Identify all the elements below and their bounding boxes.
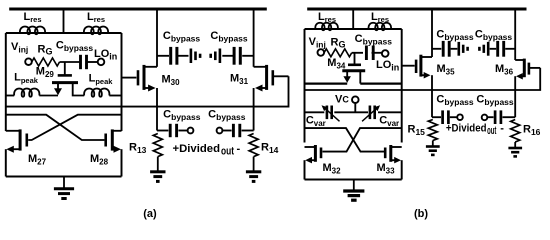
resistor R14: [249, 134, 258, 157]
label R14: [261, 142, 279, 156]
label Cvar right: [379, 115, 399, 129]
label M31: [230, 73, 249, 87]
wire ground rail (b): [305, 179, 402, 181]
label Lpeak left: [14, 72, 39, 85]
svg-text:R16: R16: [523, 124, 541, 138]
wire OUT+ to M36 gate loop: [305, 68, 541, 90]
label M34: [327, 57, 346, 71]
capacitor Cbypass out left (a): [170, 124, 176, 137]
wire rail to M31 drain node: [253, 9, 255, 67]
terminal Vinj (a): [25, 58, 32, 65]
wire M27 source to ground rail: [5, 149, 7, 176]
terminal Divided- (b): [482, 115, 488, 121]
wire M32 source to ground rail: [304, 160, 306, 179]
label LOin (b): [376, 59, 399, 73]
wire M36 gate loop: [529, 67, 540, 69]
inductor Lpeak right: [84, 88, 109, 96]
ground R13: [150, 157, 165, 182]
wire OUT+ to M31 gate loop: [6, 76, 289, 106]
ground sideways left (b): [459, 42, 468, 56]
svg-text:+Divided: +Divided: [173, 143, 221, 155]
label M29: [36, 66, 55, 80]
transistor M27 channel bar: [19, 129, 22, 150]
capacitor Cbypass M30 drain: [171, 47, 177, 65]
svg-text:R14: R14: [261, 142, 279, 156]
resistor R16: [511, 120, 520, 143]
transistor M27 source wire: [6, 146, 19, 153]
transistor M28 gate bar: [104, 134, 107, 147]
label M30: [162, 74, 181, 88]
transistor M28 source wire: [114, 146, 122, 153]
label Cvar left: [306, 115, 326, 129]
svg-text:Vinj: Vinj: [11, 41, 28, 55]
svg-text:LOin: LOin: [94, 48, 117, 62]
wire M31 source down: [253, 88, 255, 131]
label Cbypass M35: [436, 29, 474, 43]
transistor M32 drain wire: [305, 146, 315, 148]
transistor M28 channel bar: [111, 129, 114, 150]
svg-text:Lres: Lres: [371, 11, 389, 24]
transistor M31 source wire: [255, 85, 267, 92]
label (b): [414, 208, 428, 220]
wire M36 source down: [514, 76, 516, 117]
wire M35 node to Cbypass: [432, 48, 441, 50]
wire cap to output node right (b): [503, 116, 516, 118]
svg-text:Lpeak: Lpeak: [89, 73, 114, 86]
transistor M34 source arrow: [343, 71, 351, 83]
inductor Lres left (a): [20, 26, 45, 34]
transistor M35 source wire: [421, 72, 431, 79]
label Lres left (b): [318, 11, 336, 24]
capacitor Cbypass out left (b): [443, 110, 449, 124]
label Cbypass M36: [475, 29, 513, 43]
wire Cbypass to ground left mid: [178, 55, 189, 57]
wire cap to terminal left (a): [178, 130, 187, 132]
svg-text:VC: VC: [335, 94, 349, 106]
svg-text:(a): (a): [143, 208, 157, 220]
svg-text:+Divided: +Divided: [446, 122, 487, 134]
svg-text:R15: R15: [408, 124, 426, 138]
svg-text:Vinj: Vinj: [309, 36, 326, 50]
svg-text:Cbypass: Cbypass: [163, 30, 201, 44]
wire Cbypass to LOin (a): [87, 61, 98, 63]
svg-text:Cbypass: Cbypass: [436, 93, 474, 107]
svg-text:Lres: Lres: [87, 11, 105, 24]
terminal Divided+ (a): [188, 128, 194, 134]
svg-text:out: out: [221, 146, 234, 158]
transistor M29 drain wire: [73, 83, 85, 96]
label M35: [437, 63, 456, 77]
capacitor Cbypass out right (a): [233, 124, 239, 137]
ground R14: [246, 157, 261, 182]
label M28: [90, 153, 109, 167]
terminal LOin (a): [98, 59, 105, 66]
wire rail to tank center tap (b): [352, 9, 354, 29]
wire cross-couple right to M32 gate: [323, 128, 402, 152]
transistor M31 drain wire: [254, 66, 267, 68]
svg-text:M28: M28: [90, 153, 109, 167]
label VC: [335, 94, 349, 106]
svg-text:Cbypass: Cbypass: [208, 108, 246, 122]
svg-text:Lres: Lres: [24, 11, 42, 24]
svg-text:Cbypass: Cbypass: [476, 93, 514, 107]
transistor M34 gate bar: [348, 64, 361, 67]
svg-text:Cbypass: Cbypass: [56, 39, 94, 53]
wire cross-couple left to M28 gate: [6, 115, 105, 140]
node left edge lower (a): [5, 96, 7, 132]
label RG (a): [38, 44, 53, 57]
wire Cvar left to Cvar right: [334, 111, 368, 113]
svg-text:Cvar: Cvar: [379, 115, 399, 129]
varactor Cvar right: [362, 105, 380, 121]
transistor M31 channel bar: [265, 65, 268, 90]
ground sideways left (a): [191, 49, 200, 64]
wire left node to Lpeak left: [6, 95, 14, 97]
transistor M30 channel bar: [143, 65, 146, 90]
label Cbypass out left (a): [163, 108, 201, 122]
label Cbypass out left (b): [436, 93, 474, 107]
varactor Cvar left: [322, 105, 340, 121]
label R15: [408, 124, 426, 138]
wire tank top edge (a): [6, 32, 122, 34]
svg-text:M35: M35: [437, 63, 456, 77]
inductor Lres left (b): [315, 23, 338, 30]
svg-text:M30: M30: [162, 74, 181, 88]
wire Lpeak left to M29 source: [39, 95, 58, 97]
wire tank top edge (b): [305, 28, 402, 30]
svg-text:M34: M34: [327, 57, 346, 71]
node OUT+ left edge (b): [304, 29, 306, 143]
wire output node left (a): [157, 130, 168, 132]
wire Cbypass to M36 node: [505, 48, 515, 50]
wire VDD rail (b): [307, 8, 526, 11]
capacitor Cbypass M36 drain: [498, 41, 504, 57]
transistor M35 drain wire: [421, 56, 432, 58]
terminal Divided- (a): [217, 128, 223, 134]
wire VDD rail (a): [9, 8, 267, 11]
label M36: [495, 63, 514, 77]
svg-text:Cbypass: Cbypass: [436, 29, 474, 43]
label M33: [376, 162, 395, 176]
transistor M33 gate bar: [384, 148, 387, 159]
svg-text:LOin: LOin: [376, 59, 399, 73]
wire gate tap M34: [354, 53, 356, 65]
wire M33 source to ground rail: [401, 160, 403, 179]
label Cbypass out right (b): [476, 93, 514, 107]
wire rail to tank center tap (a): [63, 9, 65, 33]
label Divided out (b): [446, 122, 504, 137]
resistor R13: [153, 134, 162, 157]
transistor M27 gate bar: [25, 134, 28, 147]
label Vinj (b): [309, 36, 326, 50]
transistor M34 drain wire: [360, 71, 401, 84]
svg-text:-: -: [500, 122, 504, 134]
label M32: [322, 162, 341, 176]
transistor M31 gate bar: [271, 70, 274, 85]
transistor M29 channel bar: [52, 81, 78, 84]
label Cbypass M30: [163, 30, 201, 44]
label Cbypass M31: [210, 30, 248, 44]
wire Cbypass to M31 node: [242, 55, 253, 57]
wire VC stub: [354, 103, 356, 112]
svg-text:RG: RG: [38, 44, 53, 57]
label Cbypass out right (a): [208, 108, 246, 122]
transistor M29 gate bar: [58, 74, 72, 77]
wire cross-couple right to M27 gate: [28, 115, 121, 140]
wire gate tap M29: [64, 62, 66, 75]
label Lres right (b): [371, 11, 389, 24]
ground core (a): [54, 177, 74, 199]
wire terminal to cap right (b): [487, 116, 493, 118]
wire ground to Cbypass right mid: [222, 55, 233, 57]
transistor M36 channel bar: [523, 59, 526, 78]
inductor Lres right (a): [84, 26, 108, 34]
wire cap to output node right (a): [242, 130, 254, 132]
svg-text:M27: M27: [28, 153, 47, 167]
wire Cvar right to right edge: [378, 111, 402, 113]
ground core (b): [343, 180, 364, 201]
wire M30 node to Cbypass: [157, 55, 169, 57]
wire M31 gate loop: [273, 75, 289, 77]
transistor M34 channel bar: [342, 69, 365, 72]
svg-text:-: -: [237, 143, 241, 155]
wire M35 source down: [431, 75, 433, 117]
transistor M36 source wire: [516, 73, 524, 80]
terminal LOin (b): [382, 50, 389, 57]
transistor M33 drain wire: [392, 146, 402, 148]
transistor M28 drain wire: [114, 130, 122, 132]
wire ground rail (a): [6, 176, 122, 178]
svg-text:Cbypass: Cbypass: [210, 30, 248, 44]
ground sideways right (a): [211, 49, 220, 64]
node OUT- right edge (b): [401, 29, 403, 143]
wire bottom edge left (b): [305, 82, 348, 84]
svg-text:M32: M32: [322, 162, 341, 176]
capacitor Cbypass M35 drain: [443, 41, 449, 57]
resistor RG (b): [324, 49, 352, 57]
wire output node left (b): [432, 116, 441, 118]
wire OUT- to M35 gate: [402, 65, 415, 67]
ground R16: [508, 142, 522, 156]
label Lres left (a): [24, 11, 42, 24]
ground R15: [426, 141, 440, 155]
svg-text:M29: M29: [36, 66, 55, 80]
transistor M35 channel bar: [419, 55, 422, 77]
label Cbypass gate (b): [355, 33, 393, 47]
wire RG to Cbypass (a): [60, 61, 80, 63]
transistor M36 drain wire: [515, 59, 524, 61]
wire cross-couple left to M33 gate: [305, 128, 386, 152]
transistor M36 gate bar: [528, 63, 531, 75]
wire left edge to Cvar left: [305, 111, 325, 113]
node OUT- right edge (a): [121, 33, 123, 131]
transistor M29 source arrow: [54, 83, 62, 96]
capacitor Cbypass out right (b): [495, 110, 501, 124]
svg-text:Cbypass: Cbypass: [163, 108, 201, 122]
terminal Divided+ (b): [457, 114, 463, 120]
label RG (b): [331, 37, 346, 50]
wire RG to Cbypass (b): [352, 52, 363, 54]
svg-text:Cbypass: Cbypass: [475, 29, 513, 43]
label Cbypass gate (a): [56, 39, 94, 53]
inductor Lres right (b): [368, 23, 391, 30]
transistor M32 source wire: [305, 157, 314, 164]
capacitor Cbypass gate (a): [81, 55, 87, 69]
wire M28 source to ground rail: [121, 149, 123, 176]
transistor M27 drain wire: [6, 130, 19, 132]
wire rail to M36 drain node: [514, 9, 516, 60]
svg-text:M36: M36: [495, 63, 514, 77]
wire M30 source down: [156, 88, 158, 131]
wire rail to M35 drain node: [431, 9, 433, 57]
terminal Vinj (b): [318, 49, 325, 56]
resistor RG (a): [32, 58, 60, 66]
terminal VC: [352, 96, 359, 103]
transistor M33 source wire: [392, 157, 401, 164]
wire OUT- to M30 gate: [122, 77, 137, 79]
svg-text:M33: M33: [376, 162, 395, 176]
svg-text:(b): (b): [414, 208, 428, 220]
label LOin (a): [94, 48, 117, 62]
inductor Lpeak left: [14, 88, 39, 96]
label Lpeak right: [89, 73, 114, 86]
svg-text:Cbypass: Cbypass: [355, 33, 393, 47]
capacitor Cbypass M31 drain: [234, 47, 240, 65]
transistor M33 channel bar: [389, 145, 392, 162]
label Divided out (a): [173, 143, 241, 158]
node OUT+ left edge (a): [5, 33, 7, 96]
transistor M30 gate bar: [137, 70, 140, 85]
wire terminal to cap right (a): [223, 130, 232, 132]
label Lres right (a): [87, 11, 105, 24]
label R16: [523, 124, 541, 138]
svg-text:M31: M31: [230, 73, 249, 87]
transistor M32 channel bar: [314, 145, 317, 162]
transistor M30 drain wire: [144, 66, 157, 68]
svg-text:Lres: Lres: [318, 11, 336, 24]
wire Cbypass to LOin (b): [372, 52, 383, 54]
wire cap to terminal left (b): [450, 116, 457, 118]
transistor M30 source wire: [144, 85, 156, 92]
label R13: [129, 142, 147, 156]
label Vinj (a): [11, 41, 28, 55]
capacitor Cbypass gate (b): [366, 46, 373, 61]
resistor R15: [428, 120, 437, 141]
label M27: [28, 153, 47, 167]
wire ground to Cbypass right (b): [490, 48, 497, 50]
svg-text:out: out: [487, 125, 496, 137]
svg-text:RG: RG: [331, 37, 346, 50]
label (a): [143, 208, 157, 220]
wire rail to M30 drain node: [156, 9, 158, 67]
svg-text:Cvar: Cvar: [306, 115, 326, 129]
transistor M35 gate bar: [415, 60, 418, 73]
svg-text:R13: R13: [129, 142, 147, 156]
wire Lpeak right to right node: [109, 95, 121, 97]
wire Cbypass to ground left (b): [451, 48, 458, 50]
ground sideways right (b): [479, 42, 488, 56]
transistor M32 gate bar: [320, 148, 323, 159]
